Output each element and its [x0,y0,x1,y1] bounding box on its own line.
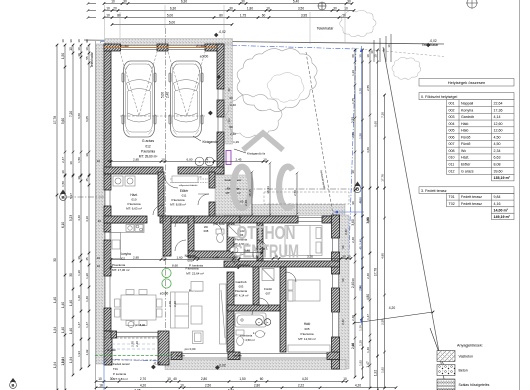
garage north wall pillar left [104,44,121,51]
svg-text:Fedett terasz: Fedett terasz [461,195,482,199]
page border right [519,0,521,390]
4,20 tie dimension to boundary [354,312,433,323]
svg-text:30: 30 [229,6,233,10]
svg-text:10: 10 [342,13,346,17]
svg-text:60: 60 [229,125,233,129]
svg-text:P. kerámia: P. kerámia [189,264,203,268]
svg-text:1,90: 1,90 [253,254,259,258]
interior dims garage [111,161,267,163]
svg-text:Háló: Háló [461,129,468,133]
terrace decking light dashes [107,343,157,345]
bathtub furdo bottom [235,313,266,327]
level marker diamonds [151,365,156,370]
svg-text:G arázs: G arázs [142,139,155,143]
svg-text:1,94: 1,94 [53,327,57,333]
svg-text:G arázs: G arázs [461,169,474,173]
svg-text:6,63: 6,63 [494,156,501,160]
svg-text:3. Fedett terasz: 3. Fedett terasz [421,189,447,193]
svg-text:10: 10 [167,377,171,381]
svg-text:1,50: 1,50 [358,133,362,139]
svg-text:3,50: 3,50 [307,254,313,258]
garage door swing dashed [120,52,157,116]
svg-text:2,40: 2,40 [344,229,348,235]
svg-text:1,47: 1,47 [366,361,370,367]
svg-text:2,40: 2,40 [173,301,177,307]
svg-text:P.kerámia: P.kerámia [300,332,313,336]
svg-text:30: 30 [333,6,337,10]
svg-text:011: 011 [182,194,187,198]
svg-text:5,00: 5,00 [167,13,173,17]
svg-text:1,29: 1,29 [351,70,355,76]
svg-text:1,75: 1,75 [240,13,246,17]
svg-text:60: 60 [262,13,266,17]
svg-text:30: 30 [107,159,111,163]
svg-text:P.kerámia: P.kerámia [127,202,140,206]
wing middle horizontal wall [224,261,340,267]
svg-text:2,70: 2,70 [168,301,172,307]
east wing east wall seg3 [332,288,340,312]
svg-text:Közlekedő: Közlekedő [236,263,250,267]
south wall pillar east [327,352,340,360]
svg-text:7,20: 7,20 [380,112,384,118]
wing west wall upper [227,223,234,258]
svg-text:pm 0,00: pm 0,00 [185,347,196,351]
svg-text:1,50: 1,50 [61,53,65,59]
left boundary vertical [95,41,97,390]
svg-text:B: B [12,383,15,388]
entrance porch T02 paving [215,175,252,215]
svg-text:10: 10 [344,6,348,10]
svg-text:6,30: 6,30 [170,6,176,10]
garden vertical dim lines [251,172,253,215]
svg-text:1,94: 1,94 [77,351,81,357]
svg-text:10: 10 [98,377,102,381]
terrace east pillar [158,331,169,365]
svg-text:Fürdő: Fürdő [264,287,272,291]
svg-text:2,18: 2,18 [259,247,265,251]
door furdo006 arc [252,246,263,257]
svg-text:10: 10 [161,157,165,161]
svg-text:30: 30 [358,54,362,58]
entrance door arc [198,194,209,205]
garage south wall east segment [178,167,224,174]
svg-text:20: 20 [113,6,117,10]
svg-text:1,50: 1,50 [239,377,245,381]
garage east wall upper [217,44,224,89]
svg-text:30: 30 [227,88,231,92]
terrace west pillar [104,331,112,365]
svg-text:10: 10 [343,377,347,381]
svg-text:30: 30 [53,258,57,262]
svg-text:012: 012 [449,169,455,173]
svg-text:5,23: 5,23 [69,215,73,221]
svg-text:≈: ≈ [199,160,201,164]
paving strip left of building [96,44,105,364]
garage west wall [104,44,111,174]
svg-text:2,80: 2,80 [201,377,207,381]
svg-text:2,47: 2,47 [61,157,65,163]
svg-text:10: 10 [180,384,184,388]
svg-text:pm: 8,00: pm: 8,00 [214,222,225,226]
garage east wall window lines [217,89,219,100]
svg-text:-0,02: -0,02 [153,362,160,366]
svg-text:2,40: 2,40 [351,237,355,243]
svg-text:2,55: 2,55 [351,132,355,138]
svg-text:1,47: 1,47 [366,314,370,320]
svg-text:Fedett terasz: Fedett terasz [461,202,482,206]
garage floor drain circles pm [195,157,204,166]
svg-text:Nappali: Nappali [461,102,473,106]
wall halo005 west [280,267,286,352]
legend swatch vasbeton [437,351,455,362]
svg-text:90: 90 [341,245,345,249]
svg-text:007: 007 [449,142,455,146]
svg-text:Házt.: Házt. [130,193,138,197]
west wall window double lines [104,190,106,206]
svg-text:2,55: 2,55 [351,117,355,123]
svg-text:002: 002 [449,108,455,112]
svg-text:4,50: 4,50 [494,142,501,146]
svg-text:1,50: 1,50 [77,157,81,163]
svg-text:90: 90 [351,201,355,205]
door garage-eloter arc [164,174,178,188]
svg-text:80: 80 [117,13,121,17]
svg-text:4,20: 4,20 [389,306,396,310]
svg-text:4,20: 4,20 [355,384,361,388]
svg-text:005: 005 [449,129,455,133]
svg-text:Házt.: Házt. [461,156,469,160]
svg-text:1,80: 1,80 [247,6,253,10]
svg-text:3,60: 3,60 [351,219,355,225]
svg-text:90: 90 [341,278,345,282]
svg-text:Előtér: Előtér [461,163,471,167]
interior wall band middle [160,216,240,223]
legend leader diagonal [430,328,444,366]
svg-text:10: 10 [106,6,110,10]
svg-text:30: 30 [69,39,73,43]
svg-text:P. kerámia: P. kerámia [113,372,126,376]
dining table with chairs [115,290,163,326]
svg-text:1,94: 1,94 [69,357,73,363]
interior wall band west [104,216,147,223]
wing roof overhang dashed rect [264,192,349,204]
svg-text:2,40: 2,40 [366,273,370,279]
pantry door arc [175,240,186,251]
interior wall Hazt/Eloter [158,172,164,216]
door furdo007 arc [252,305,262,315]
svg-text:001: 001 [449,102,455,106]
wall above furdo007 [227,305,280,311]
svg-text:006: 006 [449,135,455,139]
svg-text:30: 30 [234,255,238,259]
south glass wall lines [182,353,228,355]
blue survey dim line [360,46,362,325]
svg-text:5,40: 5,40 [244,248,250,252]
svg-text:39,60: 39,60 [494,169,503,173]
svg-text:1,47: 1,47 [77,322,81,328]
svg-text:45: 45 [85,178,89,182]
svg-text:2,70: 2,70 [140,377,146,381]
svg-text:10: 10 [97,159,101,163]
witness lines from top dim rows to building [104,5,106,38]
svg-text:1,47: 1,47 [85,322,89,328]
svg-text:2,40: 2,40 [351,315,355,321]
svg-text:1,29: 1,29 [233,140,239,144]
door wc arc [212,223,222,233]
svg-text:2,80: 2,80 [254,384,260,388]
svg-text:10: 10 [106,13,110,17]
svg-text:vb pillér: vb pillér [120,44,129,48]
svg-text:17,78: 17,78 [373,268,377,276]
shrub right garden [392,57,421,79]
svg-text:MT: 4,14 m²: MT: 4,14 m² [234,294,249,298]
svg-text:6,10: 6,10 [61,222,65,228]
pm circles bathroom007 [256,319,263,326]
svg-text:Anyagjelölések:: Anyagjelölések: [457,344,483,348]
svg-text:pm 8,00: pm 8,00 [135,323,146,327]
furdo 006 fixtures [228,225,240,253]
svg-text:003: 003 [239,285,244,289]
svg-text:17,78: 17,78 [380,174,384,182]
svg-text:4,40: 4,40 [77,215,81,221]
svg-text:5,27: 5,27 [69,193,73,199]
svg-text:9,84: 9,84 [494,195,501,199]
legend swatch szalas hoszigeteles [437,379,455,390]
svg-text:2,40: 2,40 [341,319,345,325]
boundary continuation dashed right [352,48,444,57]
svg-text:vb pillér: vb pillér [233,354,242,358]
svg-text:135,19 m²: 135,19 m² [494,176,511,180]
WC south wall [188,251,235,258]
svg-text:2,34: 2,34 [494,149,501,153]
svg-text:010: 010 [131,198,136,202]
svg-text:1,94: 1,94 [61,357,65,363]
svg-text:002: 002 [120,257,125,261]
svg-text:6,00: 6,00 [186,157,192,161]
svg-text:22,64: 22,64 [494,102,503,106]
svg-text:3,80: 3,80 [366,217,370,223]
svg-text:003: 003 [449,115,455,119]
kitchen east wall [163,216,171,256]
west wall segment [104,240,111,276]
svg-text:1,40: 1,40 [366,347,370,353]
svg-text:Konyha: Konyha [461,108,473,112]
svg-text:2,85: 2,85 [133,157,139,161]
svg-text:30: 30 [351,343,355,347]
svg-text:4,80: 4,80 [366,294,370,300]
dimension chain top [103,0,356,26]
svg-text:B: B [356,187,359,192]
svg-text:012: 012 [145,145,151,149]
svg-text:B: B [62,195,65,200]
svg-text:40: 40 [98,219,102,223]
svg-text:2,55: 2,55 [366,85,370,91]
paving strip right of garage [224,44,233,144]
svg-text:55: 55 [85,56,89,60]
svg-text:5,40: 5,40 [293,0,299,3]
sofa [171,282,204,344]
svg-text:008: 008 [449,149,455,153]
tree outline mid garden [226,94,282,137]
svg-text:1,40: 1,40 [69,328,73,334]
svg-text:17,78: 17,78 [53,116,57,124]
svg-text:10: 10 [97,264,101,268]
svg-text:1,94: 1,94 [53,362,57,368]
svg-text:1,35: 1,35 [358,325,362,331]
svg-text:4,20: 4,20 [140,384,146,388]
svg-text:Gardrób: Gardrób [461,115,474,119]
svg-text:10: 10 [77,39,81,43]
svg-text:T01: T01 [113,367,118,371]
site boundary top (Telekhatar) [84,40,444,44]
wc toilet 008 [216,229,224,243]
svg-text:T02: T02 [449,202,455,206]
svg-text:5,00: 5,00 [161,92,165,98]
svg-text:1,92: 1,92 [380,367,384,373]
right dimension chain extra ticks and labels [354,61,357,64]
svg-text:008: 008 [204,229,209,233]
svg-text:Kivágandó: Kivágandó [202,140,217,144]
svg-text:001: 001 [187,259,192,263]
door halo004 arc [257,240,267,250]
svg-text:38,33: 38,33 [266,186,270,194]
svg-text:Vasbeton: Vasbeton [459,355,474,359]
roof outline blue dash-dot [101,42,357,368]
svg-text:1,40: 1,40 [69,300,73,306]
svg-text:10: 10 [161,255,165,259]
bed in bedroom 005 [288,280,330,352]
svg-text:30: 30 [123,0,127,3]
svg-text:14,00 m²: 14,00 m² [494,209,509,213]
dimension chain bottom [96,380,347,382]
svg-text:4,20: 4,20 [302,377,308,381]
svg-text:MT: 12,60 m²: MT: 12,60 m² [298,337,316,341]
svg-text:30: 30 [347,0,351,3]
svg-text:2,70: 2,70 [358,88,362,94]
svg-text:10: 10 [263,157,267,161]
svg-text:149,19 m²: 149,19 m² [494,215,511,219]
svg-text:30: 30 [274,254,278,258]
svg-text:6,60: 6,60 [77,113,81,119]
svg-text:süllyesztett lábtörlő: süllyesztett lábtörlő [179,184,198,187]
svg-text:Szálas hőszigetelés: Szálas hőszigetelés [459,383,490,387]
car 2 in garage [169,61,203,137]
eloter cabinet [172,176,198,183]
east wing north wall east part [322,216,340,223]
door eloter-living arc [175,216,186,227]
svg-text:2,40: 2,40 [358,285,362,291]
porch west wall lower [209,202,215,216]
svg-text:005: 005 [304,327,309,331]
door corridor arc [234,254,245,265]
svg-text:6,30: 6,30 [181,0,187,3]
svg-text:±0,00: ±0,00 [160,292,169,296]
svg-text:Előtér: Előtér [180,189,189,193]
svg-text:30: 30 [342,254,346,258]
svg-text:1,60: 1,60 [176,255,182,259]
svg-text:10: 10 [77,47,81,51]
living wall closet [220,284,227,344]
svg-text:1,40: 1,40 [61,327,65,333]
garage east wall middle [217,100,224,117]
east wing east wall seg2 [332,252,340,274]
svg-text:40: 40 [173,377,177,381]
svg-text:30: 30 [69,273,73,277]
top-right boundary offset stubs [373,40,375,62]
svg-text:Wc: Wc [461,149,466,153]
svg-text:MT: 6,63 m²: MT: 6,63 m² [126,207,142,211]
site boundary right diagonal [383,47,446,390]
living south-west wall (glass door) [111,331,117,338]
paving strip above east wing [224,205,345,216]
paving strip below south wall [165,360,346,370]
svg-text:30: 30 [85,153,89,157]
svg-text:4,80: 4,80 [380,253,384,259]
svg-text:2,70: 2,70 [131,341,135,347]
svg-text:2,22: 2,22 [298,384,304,388]
interior dims kitchen row [111,259,239,261]
svg-text:MT: 17,36 m²: MT: 17,36 m² [112,268,130,272]
blue stub left bottom [103,359,105,390]
svg-text:011: 011 [449,163,455,167]
survey benchmark top right [467,0,477,8]
svg-text:8,60: 8,60 [172,263,178,267]
svg-text:60: 60 [229,96,233,100]
svg-text:30: 30 [69,161,73,165]
svg-text:2,50: 2,50 [293,190,297,196]
hazt washer [113,176,135,186]
svg-text:±0,00: ±0,00 [200,55,209,59]
svg-text:30: 30 [77,256,81,260]
svg-text:MT: 39,60 m²: MT: 39,60 m² [139,155,158,159]
svg-text:3,60: 3,60 [366,147,370,153]
kivagando arrow [193,136,201,141]
svg-text:12,60: 12,60 [494,122,503,126]
east wall window lines [332,238,334,252]
svg-text:1,92: 1,92 [358,360,362,366]
svg-text:P.kerámia: P.kerámia [141,150,155,154]
svg-text:1,92: 1,92 [85,349,89,355]
svg-text:P.kerámia: P.kerámia [171,198,184,202]
svg-text:Háló: Háló [461,122,468,126]
svg-text:10: 10 [194,255,198,259]
terrace T01 dashed outline [104,338,159,360]
west wall segment [104,174,111,190]
svg-text:6,05: 6,05 [85,116,89,122]
svg-text:10: 10 [69,47,73,51]
wall gardrob east [253,267,259,305]
svg-text:30: 30 [110,377,114,381]
svg-text:004: 004 [449,122,455,126]
svg-text:45: 45 [85,257,89,261]
svg-text:10: 10 [387,44,391,48]
wall corridor/bedroom004 [257,223,263,261]
old fence dashed diagonal [306,52,333,215]
svg-text:10: 10 [111,0,115,3]
survey circle top [318,2,326,10]
svg-text:1,40: 1,40 [53,297,57,303]
svg-text:vb pillér: vb pillér [176,354,185,358]
svg-text:007: 007 [266,292,271,296]
garage south wall west segment [104,167,163,174]
svg-text:Kivágandó fa: Kivágandó fa [247,152,265,156]
svg-text:6,60: 6,60 [373,121,377,127]
WC west wall [188,216,194,251]
svg-text:2,45: 2,45 [235,157,241,161]
garage east wall lower [217,132,224,174]
svg-text:Helyiségek összesen: Helyiségek összesen [448,80,486,85]
car 1 in garage [122,61,156,137]
